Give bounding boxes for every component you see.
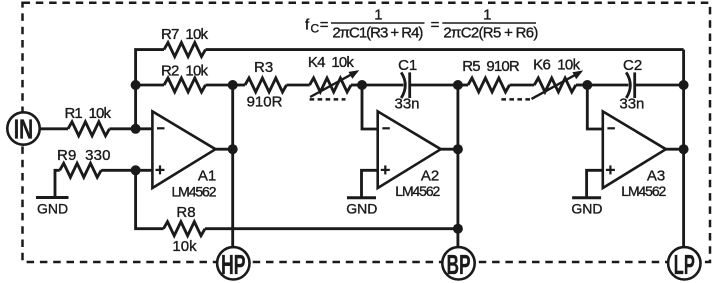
potentiometer K4: [310, 78, 352, 92]
junction node 11: [679, 80, 689, 90]
junction node 10: [582, 80, 592, 90]
svg-text:10k: 10k: [172, 238, 197, 255]
svg-text:HP: HP: [221, 249, 246, 280]
svg-text:R1 10k: R1 10k: [64, 105, 111, 122]
junction node 2: [131, 124, 141, 134]
svg-text:GND: GND: [571, 201, 602, 217]
svg-text:33n: 33n: [394, 96, 419, 113]
wire: A1 output to HP line: [216, 148, 233, 151]
svg-text:C2: C2: [623, 57, 642, 74]
svg-text:R3: R3: [254, 59, 273, 76]
svg-text:2πC2(R5 + R6): 2πC2(R5 + R6): [443, 25, 538, 42]
svg-text:R5 910R: R5 910R: [462, 58, 520, 75]
svg-text:C: C: [311, 22, 320, 36]
terminal LP: [668, 247, 700, 279]
formula: corner frequency equation: [305, 7, 538, 42]
svg-text:BP: BP: [447, 249, 471, 280]
wire: A2 output to BP line: [441, 148, 458, 151]
svg-text:33n: 33n: [619, 96, 644, 113]
svg-text:2πC1(R3 + R4): 2πC1(R3 + R4): [332, 25, 423, 42]
svg-text:1: 1: [374, 7, 382, 24]
wire: R8 to BP line: [205, 227, 458, 230]
junction node 12: [679, 144, 689, 154]
wire: A3 output to LP line: [666, 148, 684, 151]
junction node 9: [453, 224, 463, 234]
svg-text:R8: R8: [176, 204, 195, 221]
resistor R7: [164, 43, 205, 57]
svg-text:1: 1: [483, 7, 491, 24]
svg-text:GND: GND: [346, 201, 377, 217]
svg-text:LM4562: LM4562: [172, 184, 217, 200]
wire: A1 non-inverting node down to R8: [136, 170, 164, 228]
wire: HP output vertical: [231, 85, 234, 247]
resistor R8: [164, 222, 205, 236]
resistor R2: [164, 78, 205, 92]
junction node 6: [357, 80, 367, 90]
wire: BP output vertical: [456, 85, 459, 247]
terminal BP: [442, 247, 474, 279]
junction node 3: [131, 165, 141, 175]
svg-text:LM4562: LM4562: [621, 183, 666, 199]
capacitor C1: [362, 84, 404, 87]
svg-text:=: =: [431, 17, 440, 34]
op-amp A1: [152, 111, 215, 188]
wire: IN to R1: [40, 127, 69, 130]
resistor R5: [458, 84, 468, 87]
svg-text:C1: C1: [398, 57, 417, 74]
op-amp A2: [378, 111, 441, 188]
wire: top feedback rail from A1 inverting node to LP line: [136, 50, 164, 129]
junction node 5: [228, 144, 238, 154]
junction node 4: [228, 80, 238, 90]
svg-text:K6 10k: K6 10k: [533, 57, 581, 74]
junction node 1: [131, 80, 141, 90]
svg-text:A1: A1: [198, 168, 216, 185]
resistor R3: [233, 84, 245, 87]
terminal IN: [7, 112, 39, 144]
wire: K4/C1 node down to A2 inverting input: [362, 85, 378, 129]
svg-text:LM4562: LM4562: [395, 183, 440, 199]
svg-text:=: =: [320, 17, 329, 34]
wire: R9 to A1 non-inverting input: [101, 169, 152, 172]
svg-text:GND: GND: [37, 201, 68, 217]
wire: A1 inverting node to HP line (R2 path): [136, 84, 164, 87]
junction node 8: [453, 144, 463, 154]
svg-text:R2 10k: R2 10k: [161, 63, 209, 80]
resistor R1: [68, 122, 109, 136]
resistor R9: [60, 163, 101, 177]
wire: K6/C2 node down to A3 inverting input: [587, 85, 603, 129]
capacitor C2: [587, 84, 628, 87]
ground GND2: [362, 170, 378, 198]
ground GND3: [587, 170, 603, 198]
wire: R1 to A1 inverting input: [110, 127, 153, 130]
svg-text:R9 330: R9 330: [57, 147, 111, 164]
svg-text:K4 10k: K4 10k: [308, 54, 355, 71]
ground GND1: [55, 170, 60, 197]
svg-text:A3: A3: [647, 168, 665, 185]
op-amp A3: [603, 111, 666, 188]
junction node 7: [453, 80, 463, 90]
svg-text:R7 10k: R7 10k: [161, 26, 209, 43]
svg-text:IN: IN: [14, 114, 34, 145]
potentiometer K6: [534, 78, 576, 92]
svg-text:910R: 910R: [247, 94, 283, 111]
terminal HP: [217, 247, 249, 279]
wire: LP output vertical: [682, 50, 685, 248]
svg-text:f: f: [305, 17, 310, 34]
svg-text:LP: LP: [674, 249, 695, 280]
svg-text:A2: A2: [421, 168, 439, 185]
